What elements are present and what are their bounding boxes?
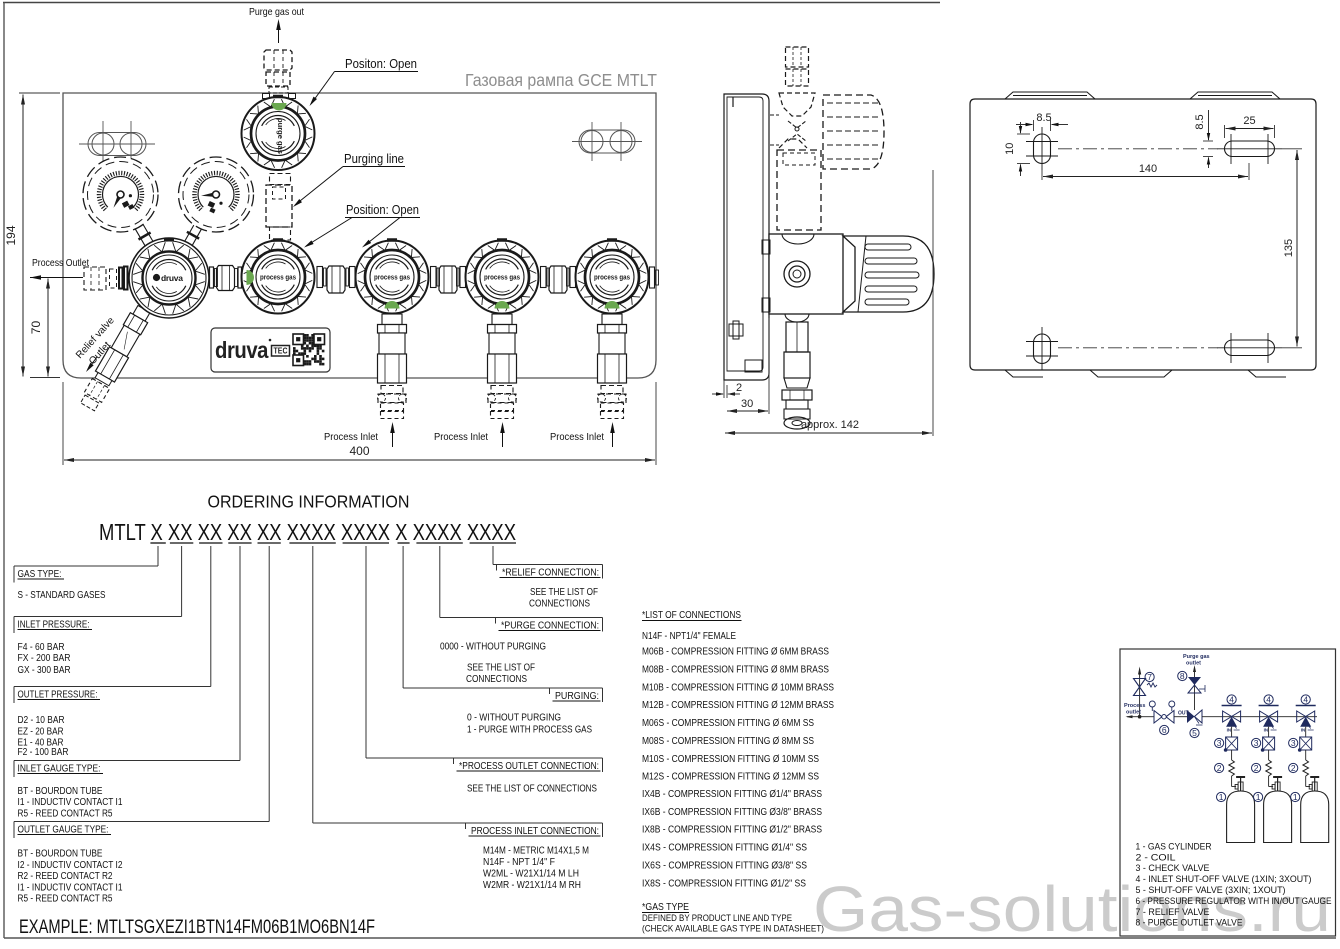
side bracket bolt [729, 324, 743, 336]
back centerlines [1058, 148, 1218, 150]
OUTLET PRESSURE label [14, 686, 211, 688]
code underlines [150, 542, 165, 544]
dim 194 [19, 92, 60, 94]
process outlet fitting [84, 267, 106, 290]
svg-text:Position: Open: Position: Open [346, 203, 419, 217]
back slot bottom-right [1225, 340, 1275, 356]
page frame top border [3, 2, 940, 4]
sch regulator 6 [1140, 716, 1154, 718]
svg-text:5 - SHUT-OFF VALVE (3XIN; 1XOU: 5 - SHUT-OFF VALVE (3XIN; 1XOUT) [1136, 885, 1286, 896]
svg-text:400: 400 [349, 444, 369, 458]
inlet stack below valve at x=502 [494, 310, 510, 315]
svg-text:F4 - 60 BAR: F4 - 60 BAR [18, 642, 65, 653]
svg-text:F2 - 100 BAR: F2 - 100 BAR [18, 747, 69, 758]
code drop lines [157, 546, 159, 566]
svg-text:purge gas: purge gas [276, 118, 283, 154]
svg-text:IX4B - COMPRESSION FITTING Ø1/: IX4B - COMPRESSION FITTING Ø1/4" BRASS [642, 789, 822, 800]
svg-text:IN: IN [1264, 728, 1269, 733]
svg-text:INLET GAUGE TYPE:: INLET GAUGE TYPE: [18, 762, 101, 774]
svg-text:N14F - NPT1/4" FEMALE: N14F - NPT1/4" FEMALE [642, 631, 736, 642]
svg-text:8.5: 8.5 [1036, 112, 1051, 124]
PURGE CONNECTION label [440, 617, 603, 619]
svg-text:S - STANDARD GASES: S - STANDARD GASES [18, 590, 106, 601]
druvaTEC logo plate [211, 328, 330, 372]
svg-text:IN: IN [1301, 728, 1306, 733]
svg-text:3 - CHECK VALVE: 3 - CHECK VALVE [1136, 863, 1210, 874]
svg-text:M06S - COMPRESSION FITTING Ø 6: M06S - COMPRESSION FITTING Ø 6MM SS [642, 718, 814, 729]
svg-text:Purge gas out: Purge gas out [249, 6, 304, 18]
sch branch 3 [1301, 695, 1310, 704]
svg-text:OUT: OUT [1178, 711, 1189, 717]
process inlet arrow [392, 427, 394, 447]
schematic box [1120, 649, 1336, 936]
purging line dashed body [270, 174, 291, 185]
valve 2 green indicator [385, 301, 400, 309]
svg-text:approx. 142: approx. 142 [801, 419, 859, 431]
svg-text:0000 - WITHOUT PURGING: 0000 - WITHOUT PURGING [440, 642, 546, 653]
svg-text:Purging line: Purging line [344, 152, 404, 166]
svg-text:PURGING:: PURGING: [555, 690, 599, 702]
side view purge fitting dashed top [786, 47, 809, 67]
svg-text:Purge gas: Purge gas [1183, 654, 1210, 660]
svg-text:194: 194 [4, 225, 18, 245]
fitting valve1-valve2 [317, 267, 323, 288]
svg-text:Process Outlet: Process Outlet [32, 257, 89, 269]
svg-text:M12S - COMPRESSION FITTING Ø 1: M12S - COMPRESSION FITTING Ø 12MM SS [642, 771, 819, 782]
svg-text:2: 2 [1254, 763, 1259, 773]
svg-text:2: 2 [1217, 763, 1222, 773]
svg-text:Газовая рампа GCE MTLT: Газовая рампа GCE MTLT [465, 70, 657, 90]
svg-text:process gas: process gas [484, 275, 520, 282]
relief outlet arrow [88, 357, 97, 369]
svg-text:druva: druva [215, 337, 269, 363]
sch purge branch [1194, 684, 1196, 710]
sch branch 1 [1227, 695, 1236, 704]
svg-text:R5 - REED CONTACT R5: R5 - REED CONTACT R5 [18, 809, 113, 820]
panel slot top-right [579, 130, 635, 153]
back plate outline [970, 99, 1316, 370]
svg-text:10: 10 [1004, 143, 1016, 155]
svg-text:4: 4 [1229, 695, 1234, 705]
svg-text:W2ML - W21X1/14 M LH: W2ML - W21X1/14 M LH [483, 869, 579, 880]
dim 70 [47, 279, 49, 377]
GAS TYPE label [14, 565, 158, 567]
svg-text:2 - COIL: 2 - COIL [1136, 852, 1176, 863]
svg-text:1: 1 [1293, 792, 1298, 802]
svg-text:I1 - INDUCTIV CONTACT I1: I1 - INDUCTIV CONTACT I1 [18, 883, 123, 894]
svg-text:3: 3 [1254, 738, 1259, 748]
svg-text:DEFINED BY PRODUCT LINE AND TY: DEFINED BY PRODUCT LINE AND TYPE [642, 913, 792, 924]
svg-text:70: 70 [29, 321, 43, 335]
svg-text:IX6S - COMPRESSION FITTING Ø3/: IX6S - COMPRESSION FITTING Ø3/8" SS [642, 860, 807, 871]
sch branch 2 [1264, 695, 1273, 704]
svg-text:INLET PRESSURE:: INLET PRESSURE: [18, 618, 90, 630]
inlet stack below valve at x=612 [604, 310, 620, 315]
svg-text:*PROCESS OUTLET CONNECTION:: *PROCESS OUTLET CONNECTION: [459, 760, 599, 772]
svg-text:I1 - INDUCTIV CONTACT I1: I1 - INDUCTIV CONTACT I1 [18, 797, 123, 808]
svg-text:Process: Process [1124, 703, 1145, 709]
svg-text:OUTLET PRESSURE:: OUTLET PRESSURE: [18, 688, 98, 700]
valve 1 green indicator [247, 270, 255, 285]
purge valve clamp tabs [263, 94, 270, 99]
side view hand knob [843, 236, 934, 312]
process gas valve 3 [466, 241, 539, 314]
svg-text:EXAMPLE: MTLTSGXEZI1BTN14FM06B: EXAMPLE: MTLTSGXEZI1BTN14FM06B1MO6BN14F [19, 917, 375, 938]
OUTLET GAUGE TYPE label [14, 821, 269, 823]
svg-text:process gas: process gas [260, 275, 296, 282]
side view regulator body [769, 234, 843, 314]
svg-text:6: 6 [1162, 725, 1167, 735]
process gas valve 4 [576, 241, 649, 314]
svg-text:M08S - COMPRESSION FITTING Ø 8: M08S - COMPRESSION FITTING Ø 8MM SS [642, 736, 814, 747]
svg-text:R2 - REED CONTACT R2: R2 - REED CONTACT R2 [18, 871, 113, 882]
svg-text:5: 5 [1192, 728, 1197, 738]
back slot top-right (horizontal) [1225, 141, 1275, 157]
svg-text:GX - 300 BAR: GX - 300 BAR [18, 665, 71, 676]
svg-text:3: 3 [1217, 738, 1222, 748]
back slot bottom-left [1034, 334, 1051, 364]
svg-text:Process Inlet: Process Inlet [434, 431, 488, 443]
gauge stems [135, 225, 152, 246]
svg-text:0 - WITHOUT PURGING: 0 - WITHOUT PURGING [467, 713, 561, 724]
back plate bottom tabs [1090, 370, 1172, 377]
svg-text:M08B - COMPRESSION FITTING Ø 8: M08B - COMPRESSION FITTING Ø 8MM BRASS [642, 665, 829, 676]
side view outlet stack below [785, 314, 809, 322]
svg-text:IX6B - COMPRESSION FITTING Ø3/: IX6B - COMPRESSION FITTING Ø3/8" BRASS [642, 807, 822, 818]
side view bracket panel [724, 94, 769, 380]
svg-text:BT - BOURDON TUBE: BT - BOURDON TUBE [18, 786, 103, 797]
svg-text:4 - INLET SHUT-OFF VALVE (1XIN: 4 - INLET SHUT-OFF VALVE (1XIN; 3XOUT) [1136, 874, 1312, 885]
svg-text:140: 140 [1139, 163, 1157, 175]
sch purge valve 8 [1188, 677, 1201, 685]
sch shut-off valve 5 [1187, 710, 1195, 723]
svg-text:2: 2 [1291, 763, 1296, 773]
process gas valve 1 [242, 241, 315, 314]
purge valve green position indicator [272, 103, 287, 111]
svg-text:4: 4 [1303, 695, 1308, 705]
svg-text:BT - BOURDON TUBE: BT - BOURDON TUBE [18, 849, 103, 860]
svg-text:FX - 200 BAR: FX - 200 BAR [18, 653, 71, 664]
fitting valve2-valve3 [431, 267, 437, 288]
dim 400 [62, 382, 64, 465]
svg-text:Process Inlet: Process Inlet [550, 431, 604, 443]
PURGING label [403, 687, 602, 689]
manifold panel front view outline [63, 93, 656, 378]
svg-text:SEE THE LIST OF: SEE THE LIST OF [467, 663, 535, 674]
purge gas valve [242, 97, 315, 170]
svg-text:M14M - METRIC M14X1,5 M: M14M - METRIC M14X1,5 M [483, 846, 589, 857]
svg-text:30: 30 [741, 398, 753, 410]
svg-text:M12B - COMPRESSION FITTING Ø 1: M12B - COMPRESSION FITTING Ø 12MM BRASS [642, 700, 834, 711]
side bracket lower notch [745, 360, 762, 372]
svg-text:*LIST OF CONNECTIONS: *LIST OF CONNECTIONS [642, 609, 741, 621]
svg-text:M10S - COMPRESSION FITTING Ø 1: M10S - COMPRESSION FITTING Ø 10MM SS [642, 754, 819, 765]
svg-text:SEE THE LIST OF CONNECTIONS: SEE THE LIST OF CONNECTIONS [467, 784, 597, 795]
gauge 2 (outlet) [179, 157, 254, 232]
svg-text:M06B - COMPRESSION FITTING Ø 6: M06B - COMPRESSION FITTING Ø 6MM BRASS [642, 647, 829, 658]
purge gas out arrow [278, 24, 280, 43]
fitting valve4-panel edge [650, 267, 655, 288]
svg-text:8 - PURGE OUTLET VALVE: 8 - PURGE OUTLET VALVE [1136, 918, 1243, 929]
valve 3 green indicator [495, 301, 510, 309]
sch relief valve 7 [1139, 672, 1141, 717]
svg-text:2: 2 [736, 382, 742, 394]
svg-text:6 - PRESSURE REGULATOR WITH IN: 6 - PRESSURE REGULATOR WITH IN/OUT GAUGE [1136, 896, 1332, 907]
INLET PRESSURE label [14, 616, 182, 618]
svg-text:(CHECK AVAILABLE GAS TYPE IN D: (CHECK AVAILABLE GAS TYPE IN DATASHEET) [642, 924, 824, 935]
PROCESS OUTLET CONNECTION label [366, 757, 603, 759]
svg-text:PROCESS INLET CONNECTION:: PROCESS INLET CONNECTION: [471, 825, 599, 837]
svg-text:1 - GAS CYLINDER: 1 - GAS CYLINDER [1136, 841, 1212, 852]
side view knob dashed (purge regulator) [823, 95, 884, 169]
svg-text:druva: druva [161, 273, 183, 283]
svg-text:*RELIEF CONNECTION:: *RELIEF CONNECTION: [502, 566, 599, 578]
svg-text:25: 25 [1243, 115, 1255, 127]
svg-text:1: 1 [1219, 792, 1224, 802]
page frame bottom border [4, 937, 1336, 939]
svg-text:8.5: 8.5 [1194, 114, 1206, 129]
svg-text:process gas: process gas [594, 275, 630, 282]
svg-text:4: 4 [1266, 695, 1271, 705]
svg-text:D2 - 10 BAR: D2 - 10 BAR [18, 715, 65, 726]
svg-text:135: 135 [1283, 239, 1295, 257]
svg-text:M10B - COMPRESSION FITTING Ø 1: M10B - COMPRESSION FITTING Ø 10MM BRASS [642, 683, 834, 694]
svg-text:OUTLET GAUGE TYPE:: OUTLET GAUGE TYPE: [18, 823, 109, 835]
purge outlet fitting dashed [264, 50, 292, 70]
process inlet arrow [502, 427, 504, 447]
svg-text:ORDERING INFORMATION: ORDERING INFORMATION [208, 492, 410, 512]
gauge 1 (inlet) [83, 157, 158, 232]
QR code [293, 334, 325, 366]
RELIEF CONNECTION label [493, 564, 603, 566]
svg-text:outlet: outlet [1186, 661, 1201, 667]
side view purging line dashed [777, 150, 821, 230]
svg-text:SEE THE LIST OF: SEE THE LIST OF [530, 587, 598, 598]
relief valve stack [78, 304, 154, 413]
svg-text:1: 1 [1256, 792, 1261, 802]
svg-text:R5 - REED CONTACT R5: R5 - REED CONTACT R5 [18, 894, 113, 905]
svg-text:*PURGE CONNECTION:: *PURGE CONNECTION: [501, 619, 599, 631]
process gas valve 2 [356, 241, 429, 314]
svg-text:IN: IN [1227, 728, 1232, 733]
druva regulator body [129, 238, 209, 318]
sch manifold line [1202, 716, 1317, 718]
svg-text:IX8B - COMPRESSION FITTING Ø1/: IX8B - COMPRESSION FITTING Ø1/2" BRASS [642, 825, 822, 836]
svg-text:CONNECTIONS: CONNECTIONS [466, 674, 527, 685]
svg-text:process gas: process gas [374, 275, 410, 282]
svg-text:*GAS TYPE: *GAS TYPE [642, 901, 689, 913]
side view purge valve funnel dashed [779, 93, 815, 116]
panel slot top-left [88, 133, 146, 156]
INLET GAUGE TYPE label [14, 760, 240, 762]
back plate top tabs [1005, 92, 1095, 99]
valve 4 green indicator [605, 301, 620, 309]
process inlet arrow [612, 427, 614, 447]
svg-text:EZ - 20 BAR: EZ - 20 BAR [18, 727, 64, 738]
svg-text:N14F - NPT 1/4" F: N14F - NPT 1/4" F [483, 857, 555, 868]
svg-text:1 - PURGE WITH PROCESS GAS: 1 - PURGE WITH PROCESS GAS [467, 725, 592, 736]
svg-text:IX4S - COMPRESSION FITTING Ø1/: IX4S - COMPRESSION FITTING Ø1/4" SS [642, 843, 807, 854]
PROCESS INLET CONNECTION label [313, 822, 603, 824]
page frame left border [3, 3, 5, 939]
fitting regulator-valve1 [210, 267, 214, 288]
inlet stack below valve at x=392 [384, 310, 400, 315]
svg-text:8: 8 [1180, 671, 1185, 681]
svg-text:CONNECTIONS: CONNECTIONS [529, 599, 590, 610]
svg-text:7: 7 [1147, 672, 1152, 682]
svg-text:MTLT X XX XX XX XX XXXX XXXX X: MTLT X XX XX XX XX XXXX XXXX X XXXX XXXX [99, 519, 516, 545]
svg-text:7 - RELIEF VALVE: 7 - RELIEF VALVE [1136, 907, 1210, 918]
svg-text:IX8S - COMPRESSION FITTING Ø1/: IX8S - COMPRESSION FITTING Ø1/2" SS [642, 878, 806, 889]
fitting valve3-valve4 [541, 267, 547, 288]
svg-text:W2MR - W21X1/14 M RH: W2MR - W21X1/14 M RH [483, 880, 581, 891]
svg-text:3: 3 [1291, 738, 1296, 748]
svg-text:GAS TYPE:: GAS TYPE: [18, 568, 62, 580]
svg-text:TEC: TEC [274, 347, 288, 356]
svg-text:Positon: Open: Positon: Open [345, 57, 417, 71]
svg-text:outlet: outlet [1126, 710, 1141, 716]
svg-text:I2 - INDUCTIV CONTACT I2: I2 - INDUCTIV CONTACT I2 [18, 860, 123, 871]
back slot top-left (vertical) [1034, 134, 1051, 164]
process outlet leader [30, 277, 83, 279]
svg-text:Process Inlet: Process Inlet [324, 431, 378, 443]
